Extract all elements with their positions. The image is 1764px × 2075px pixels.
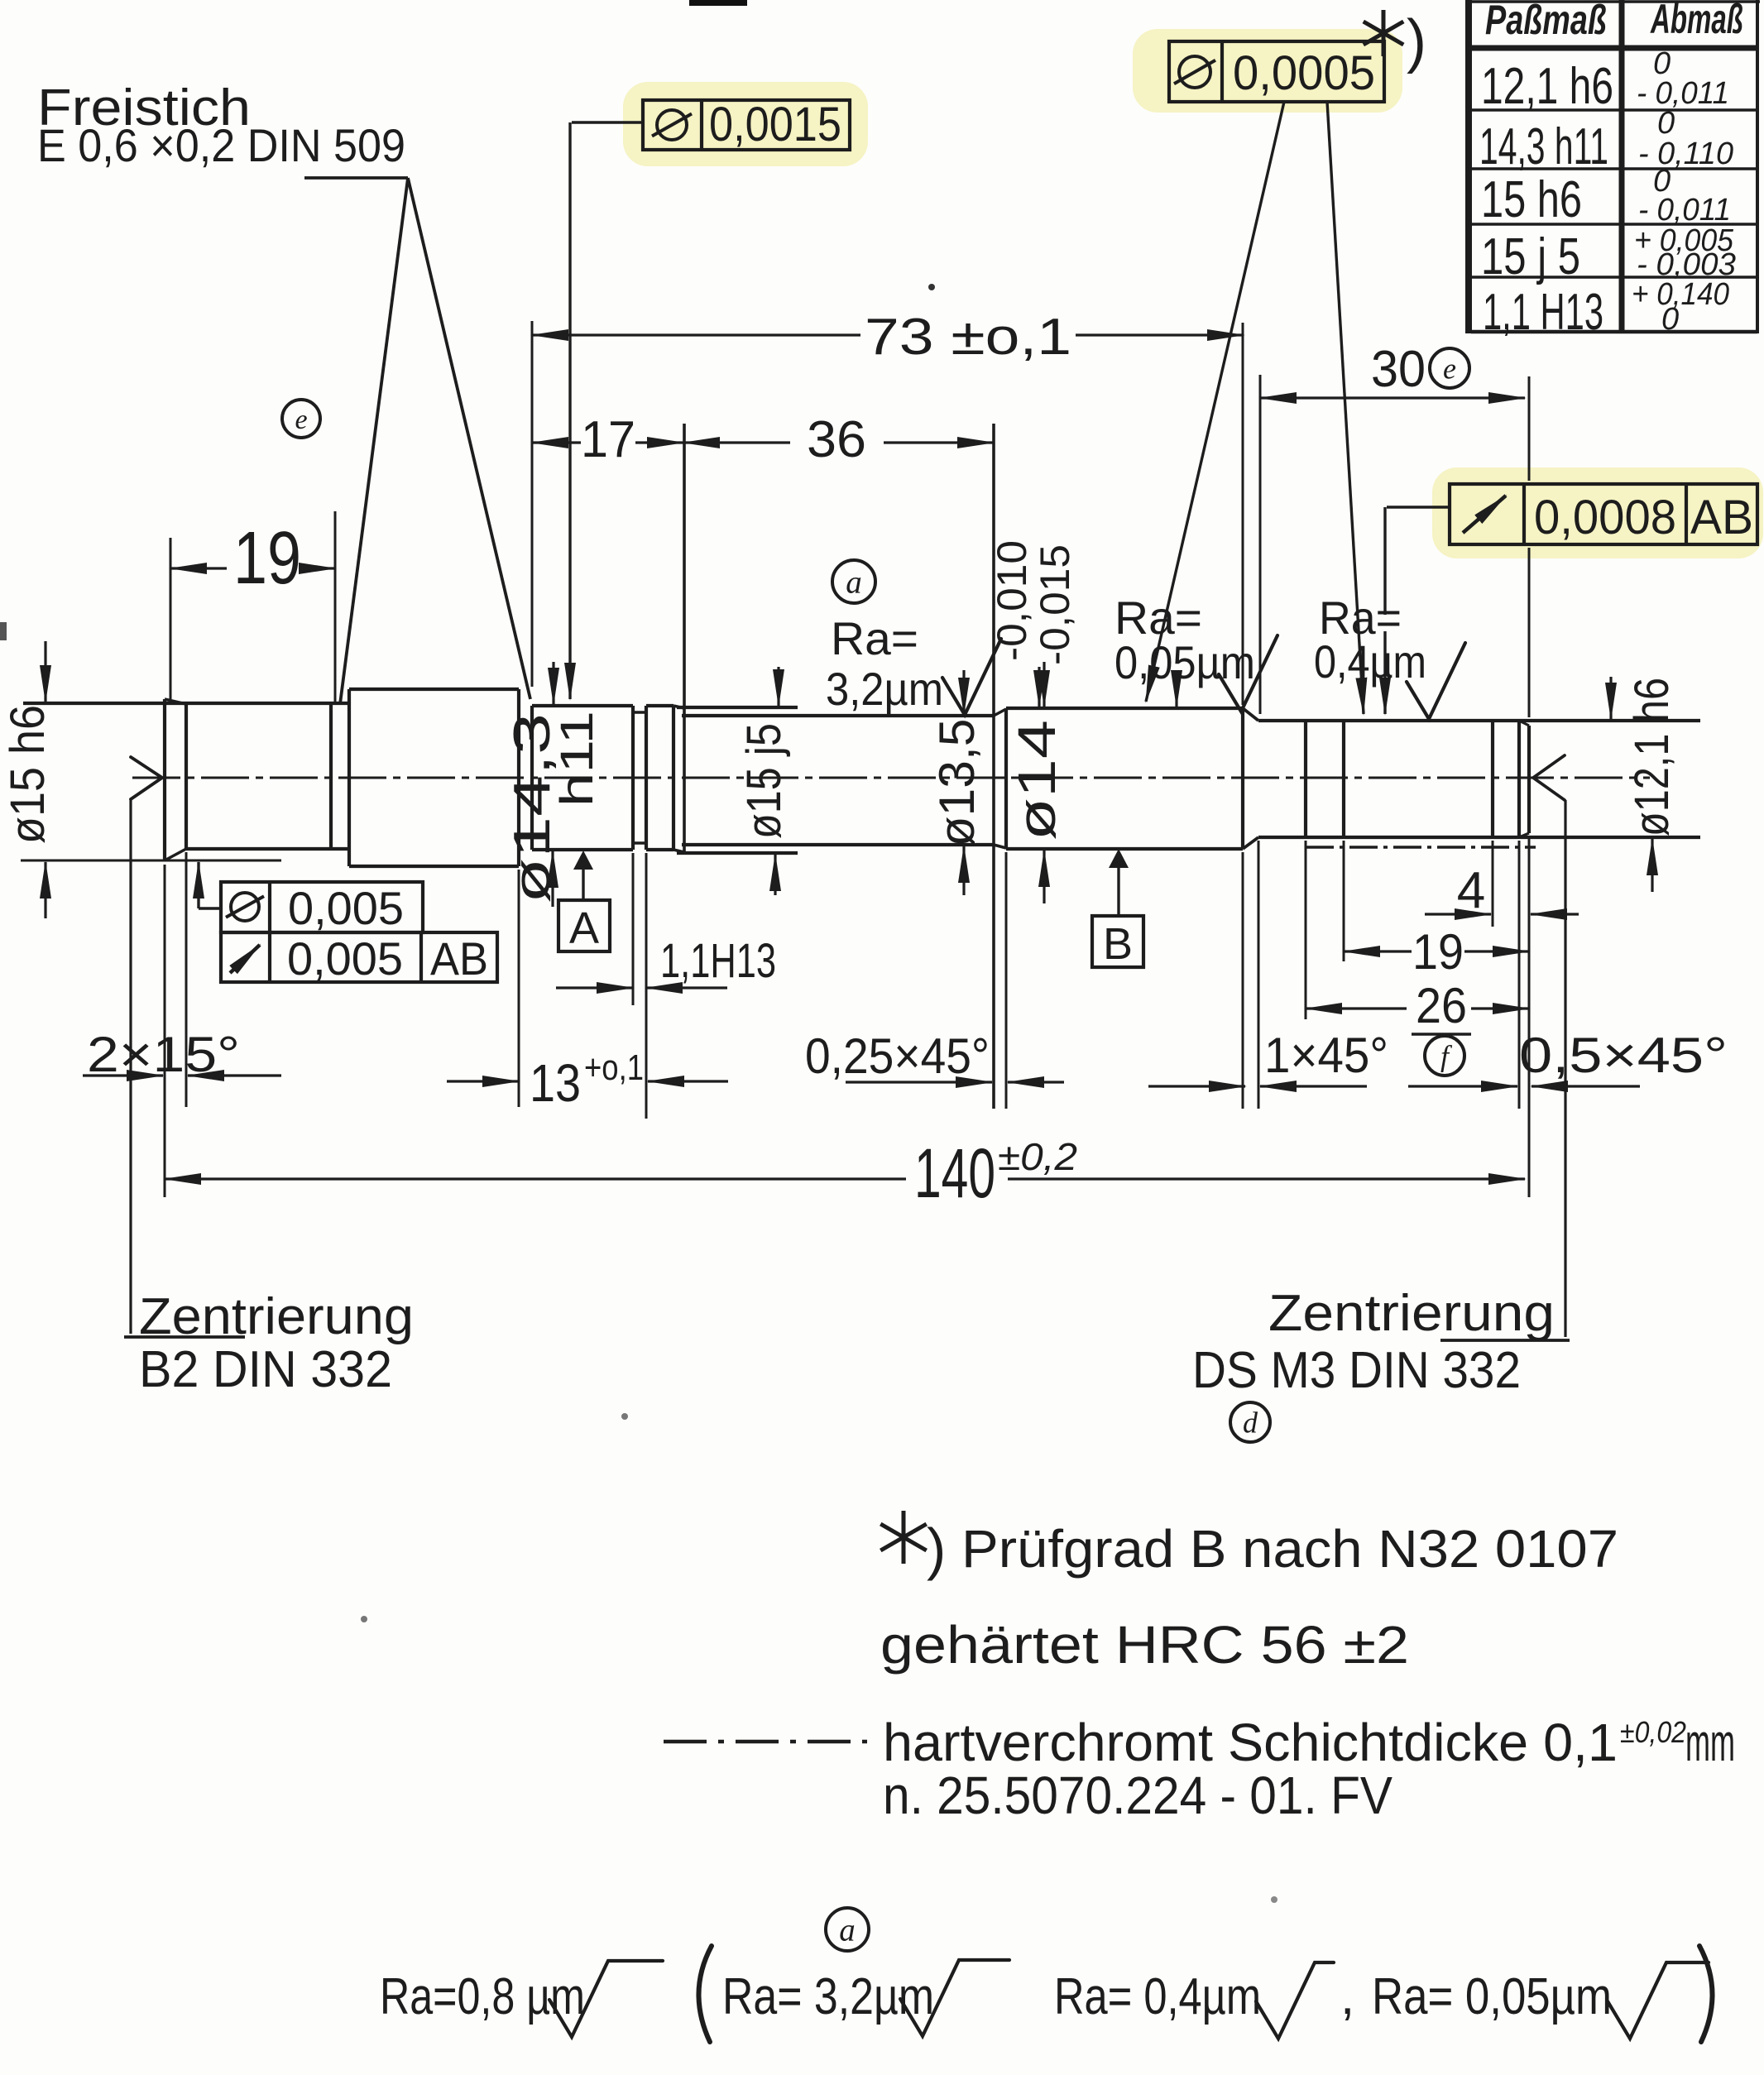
svg-text:ø13,5: ø13,5 [929, 719, 985, 847]
svg-text:- 0,011: - 0,011 [1637, 76, 1729, 111]
svg-text:AB: AB [430, 932, 488, 985]
svg-text:0,05µm: 0,05µm [1114, 636, 1255, 688]
svg-text:0,0005: 0,0005 [1233, 46, 1375, 100]
svg-text:Paßmaß: Paßmaß [1485, 0, 1607, 43]
svg-text:A: A [569, 903, 599, 953]
svg-text:0: 0 [1657, 106, 1675, 141]
svg-text:30: 30 [1371, 341, 1426, 398]
svg-text:140: 140 [914, 1134, 995, 1212]
svg-text:±0,2: ±0,2 [998, 1135, 1077, 1178]
svg-text:19: 19 [1412, 924, 1464, 980]
svg-text:e: e [295, 405, 307, 435]
svg-text:1,1H13: 1,1H13 [660, 934, 776, 988]
svg-text:Ra= 3,2µm: Ra= 3,2µm [722, 1968, 934, 2025]
svg-text:h11: h11 [550, 711, 602, 807]
svg-text:gehärtet HRC 56 ±2: gehärtet HRC 56 ±2 [880, 1615, 1409, 1675]
svg-text:Ra= 0,05µm: Ra= 0,05µm [1372, 1968, 1612, 2025]
svg-text:-0,010: -0,010 [989, 540, 1035, 661]
svg-text:B: B [1103, 919, 1133, 969]
svg-text:- 0,011: - 0,011 [1638, 193, 1731, 228]
svg-text:): ) [927, 1517, 946, 1581]
svg-text:0,4µm: 0,4µm [1314, 635, 1426, 688]
svg-text:Ra=0,8 µm: Ra=0,8 µm [380, 1968, 585, 2025]
svg-text:15 j 5: 15 j 5 [1481, 228, 1580, 285]
svg-text:14,3 h11: 14,3 h11 [1479, 118, 1608, 175]
svg-text:,: , [1340, 1968, 1354, 2025]
svg-text:0,5×45°: 0,5×45° [1519, 1028, 1728, 1083]
svg-text:ø12,1 h6: ø12,1 h6 [1625, 678, 1679, 836]
svg-text:0,005: 0,005 [288, 882, 404, 934]
svg-text:E 0,6 ×0,2 DIN 509: E 0,6 ×0,2 DIN 509 [37, 119, 405, 171]
svg-text:36: 36 [807, 411, 866, 468]
svg-text:Abmaß: Abmaß [1650, 0, 1743, 42]
svg-text:0,0008: 0,0008 [1534, 491, 1676, 544]
svg-text:3,2µm: 3,2µm [826, 663, 943, 715]
svg-text:17: 17 [581, 411, 635, 468]
svg-text:mm: mm [1685, 1713, 1735, 1772]
svg-text:Prüfgrad B nach N32 0107: Prüfgrad B nach N32 0107 [961, 1519, 1618, 1579]
svg-text:hartverchromt Schichtdicke: hartverchromt Schichtdicke 0,1 [883, 1713, 1618, 1772]
svg-text:0: 0 [1661, 302, 1679, 337]
svg-text:12,1 h6: 12,1 h6 [1481, 58, 1613, 115]
svg-text:Zentrierung: Zentrierung [1268, 1285, 1555, 1342]
svg-text:): ) [1407, 8, 1426, 74]
svg-text:1×45°: 1×45° [1264, 1028, 1388, 1083]
svg-text:+o,1: +o,1 [584, 1047, 644, 1088]
svg-text:19: 19 [233, 517, 301, 600]
svg-text:26: 26 [1416, 978, 1467, 1033]
svg-text:0,25×45°: 0,25×45° [805, 1028, 990, 1084]
svg-text:1,1 H13: 1,1 H13 [1483, 284, 1603, 341]
svg-text:13: 13 [530, 1053, 581, 1113]
svg-text:e: e [1443, 352, 1456, 386]
svg-text:AB: AB [1690, 491, 1753, 544]
svg-text:DS M3 DIN 332: DS M3 DIN 332 [1192, 1342, 1521, 1399]
svg-text:n. 25.5070.224 - 01. FV: n. 25.5070.224 - 01. FV [883, 1766, 1393, 1825]
svg-text:ø14: ø14 [1007, 720, 1067, 841]
svg-text:Ra=: Ra= [831, 612, 918, 664]
svg-text:Zentrierung: Zentrierung [139, 1288, 414, 1345]
svg-text:a: a [839, 1913, 856, 1948]
svg-text:+ 0,140: + 0,140 [1632, 277, 1729, 312]
svg-text:Ra= 0,4µm: Ra= 0,4µm [1054, 1968, 1261, 2025]
svg-text:2×15°: 2×15° [87, 1027, 240, 1082]
svg-text:d: d [1243, 1406, 1258, 1440]
svg-text:ø15 h6: ø15 h6 [1, 705, 55, 844]
svg-text:a: a [846, 565, 862, 601]
svg-text:±0,02: ±0,02 [1620, 1715, 1686, 1749]
svg-text:ø15 j5: ø15 j5 [737, 723, 791, 839]
svg-text:0,005: 0,005 [287, 932, 403, 985]
svg-text:B2 DIN 332: B2 DIN 332 [139, 1341, 392, 1398]
svg-text:-0,015: -0,015 [1032, 544, 1078, 665]
svg-text:0,0015: 0,0015 [709, 98, 841, 151]
svg-text:4: 4 [1457, 862, 1485, 919]
svg-text:15 h6: 15 h6 [1481, 171, 1582, 228]
svg-text:73 ±o,1: 73 ±o,1 [865, 309, 1071, 366]
